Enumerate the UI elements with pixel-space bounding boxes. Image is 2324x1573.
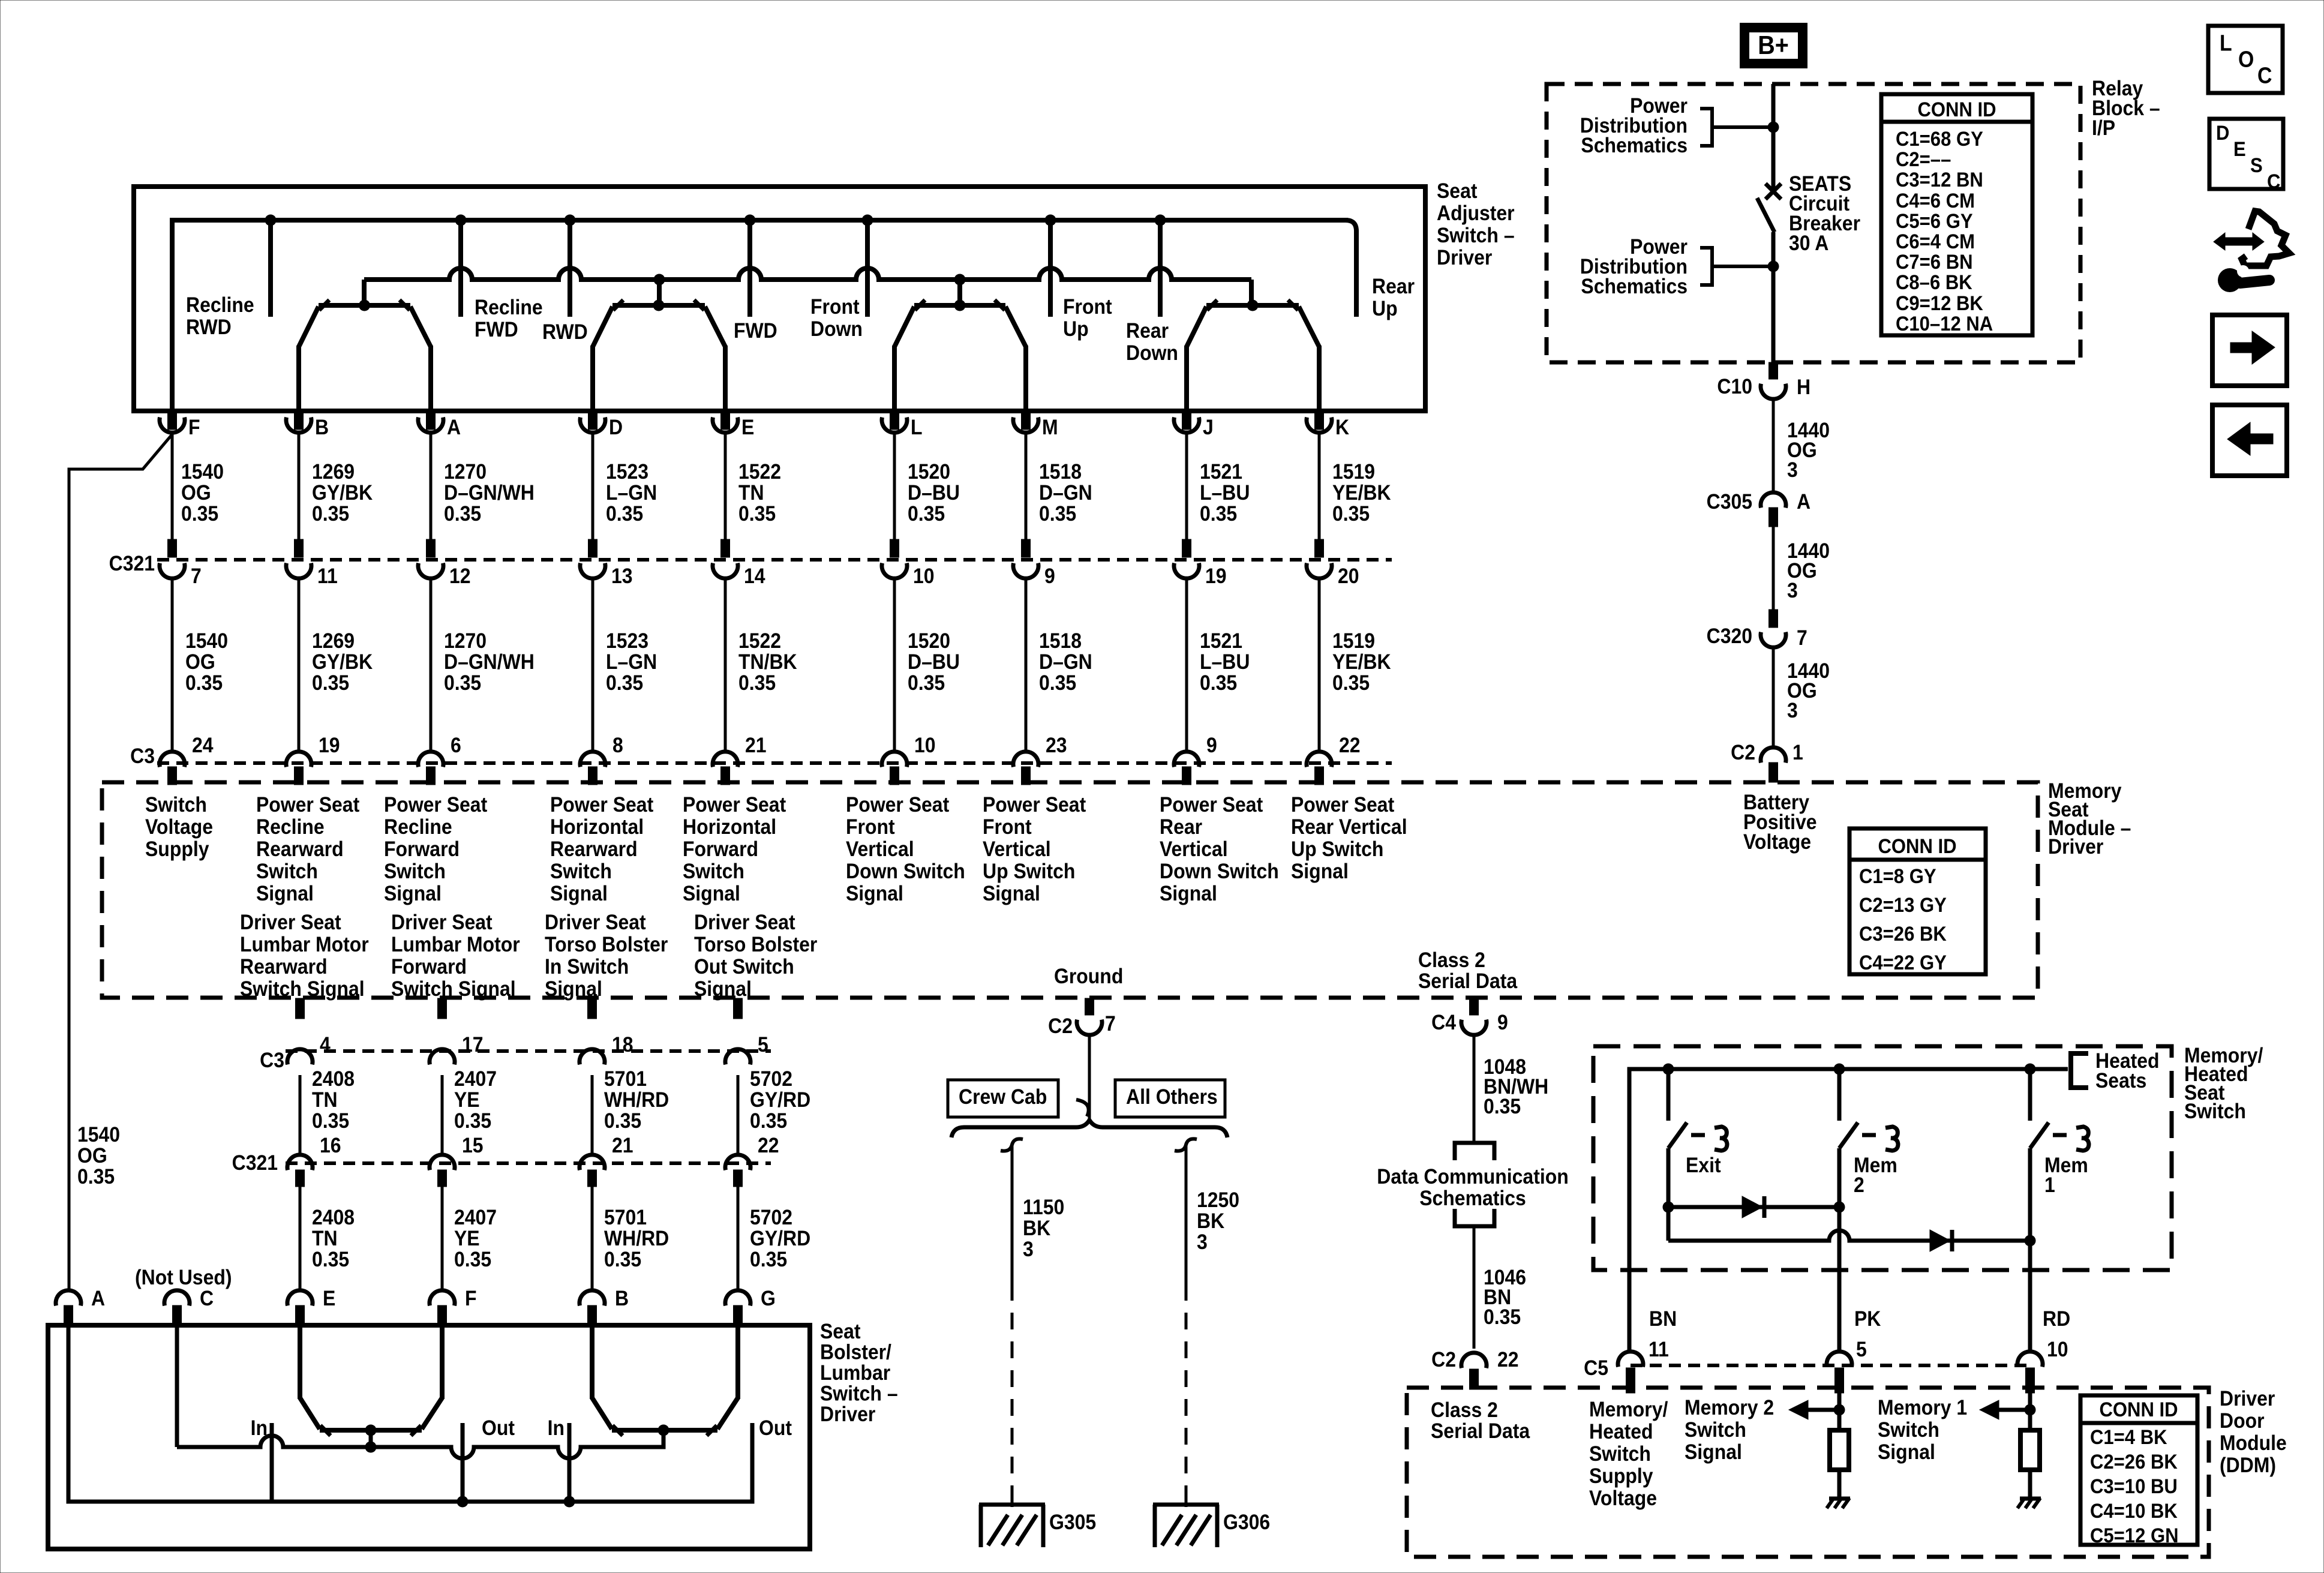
- svg-text:0.35: 0.35: [1200, 671, 1237, 695]
- svg-text:D–GN: D–GN: [1039, 481, 1092, 505]
- svg-text:1540: 1540: [181, 460, 224, 484]
- svg-text:D: D: [609, 415, 623, 439]
- connector C3 pin 24: [160, 752, 185, 767]
- connector C3 pin 6: [418, 752, 443, 767]
- svg-text:OG: OG: [181, 481, 211, 505]
- svg-text:7: 7: [191, 564, 202, 588]
- svg-text:5: 5: [1856, 1337, 1867, 1361]
- svg-text:C1=8 GY: C1=8 GY: [1859, 864, 1936, 888]
- svg-text:15: 15: [462, 1133, 484, 1157]
- connector C3 pin 4 (lower): [296, 998, 305, 1019]
- svg-text:Signal: Signal: [384, 881, 442, 905]
- svg-text:BK: BK: [1197, 1209, 1225, 1233]
- svg-text:Power Seat: Power Seat: [1291, 792, 1394, 816]
- svg-text:10: 10: [2047, 1337, 2068, 1361]
- connector C5 pin 5: [1827, 1352, 1852, 1367]
- svg-text:WH/RD: WH/RD: [604, 1226, 669, 1250]
- svg-text:2408: 2408: [312, 1067, 355, 1091]
- node diode2 right dot: [2025, 1235, 2036, 1247]
- connector pin J (seat adjuster switch): [1182, 413, 1191, 430]
- svg-text:Seat: Seat: [1437, 179, 1477, 203]
- svg-text:3: 3: [1023, 1237, 1034, 1261]
- ground G305: [979, 1503, 1045, 1507]
- svg-text:Front: Front: [983, 815, 1032, 839]
- svg-text:2: 2: [1854, 1173, 1864, 1197]
- svg-text:Forward: Forward: [384, 837, 460, 861]
- node bus dot Out1: [457, 1496, 469, 1508]
- svg-text:C2: C2: [1048, 1014, 1073, 1038]
- node bus dot x950: [565, 215, 576, 226]
- wire C2-7 down: [1088, 1035, 1091, 1118]
- svg-text:Memory 1: Memory 1: [1878, 1395, 1967, 1419]
- switch rear vertical (J-K): [1206, 303, 1299, 308]
- svg-text:Rearward: Rearward: [240, 954, 328, 978]
- icon prev-page arrow: [2250, 434, 2273, 444]
- svg-text:1521: 1521: [1200, 629, 1242, 653]
- svg-text:(Not Used): (Not Used): [135, 1265, 232, 1289]
- node bus dot x1934: [1155, 215, 1166, 226]
- wire stub x768: [458, 220, 463, 317]
- svg-text:0.35: 0.35: [444, 502, 481, 526]
- wire bus2 right corner: [1249, 280, 1254, 305]
- node bus dot x1446: [862, 215, 873, 226]
- connector pin D (seat adjuster switch): [588, 413, 597, 430]
- wire all others ground dashed: [1185, 1284, 1188, 1495]
- wire common line (from C): [177, 1430, 663, 1458]
- wire stub x950: [568, 220, 572, 317]
- wire sw3 tap: [957, 280, 962, 305]
- switch Exit: [1663, 1064, 1674, 1075]
- svg-text:0.35: 0.35: [312, 671, 349, 695]
- svg-text:In: In: [548, 1416, 565, 1440]
- svg-text:Switch: Switch: [1589, 1442, 1651, 1466]
- wire all others ground: [1185, 1146, 1188, 1284]
- wire sw2 tap: [657, 280, 662, 305]
- brace: [951, 1120, 1227, 1137]
- svg-text:D–GN/WH: D–GN/WH: [444, 650, 535, 674]
- connector line C5 (dashed): [1631, 1364, 2030, 1367]
- svg-text:30 A: 30 A: [1789, 231, 1828, 255]
- svg-text:9: 9: [1044, 564, 1055, 588]
- svg-text:C4=22 GY: C4=22 GY: [1859, 951, 1947, 974]
- svg-text:Switch: Switch: [384, 859, 446, 883]
- svg-text:Ground: Ground: [1054, 964, 1123, 988]
- svg-text:22: 22: [758, 1133, 779, 1157]
- svg-text:Out Switch: Out Switch: [694, 954, 794, 978]
- circuit breaker SEATS blade: [1757, 198, 1774, 232]
- wire Out1 vertical: [461, 1423, 465, 1502]
- diode D1: [1668, 1205, 1839, 1209]
- svg-text:C320: C320: [1707, 624, 1752, 648]
- svg-text:13: 13: [611, 564, 633, 588]
- wire second bus: [364, 268, 1251, 280]
- svg-text:1270: 1270: [444, 629, 487, 653]
- svg-text:Class 2: Class 2: [1418, 948, 1485, 972]
- svg-text:OG: OG: [185, 650, 215, 674]
- svg-text:Switch: Switch: [550, 859, 612, 883]
- wire C10-C305: [1772, 401, 1775, 491]
- svg-text:Power Seat: Power Seat: [550, 792, 653, 816]
- wire C4 down: [1473, 1037, 1476, 1143]
- svg-text:Driver Seat: Driver Seat: [694, 910, 795, 934]
- svg-text:1270: 1270: [444, 460, 487, 484]
- svg-text:Up: Up: [1063, 317, 1089, 341]
- svg-text:Driver: Driver: [2220, 1386, 2275, 1410]
- node diode1 left dot: [1663, 1202, 1674, 1213]
- power B+ box: [1744, 28, 1803, 64]
- connector C321 pin 21 (lower): [580, 1155, 605, 1170]
- svg-text:11: 11: [1649, 1337, 1669, 1361]
- wire pin C drop: [175, 1325, 179, 1447]
- svg-text:0.35: 0.35: [77, 1164, 115, 1188]
- svg-text:3: 3: [1787, 698, 1798, 722]
- svg-text:Signal: Signal: [545, 977, 602, 1001]
- wire B+ feed lower: [1771, 232, 1776, 362]
- svg-text:Rear: Rear: [1160, 815, 1202, 839]
- table CONN ID module: [1849, 828, 1986, 974]
- wire crew cab ground: [1011, 1146, 1014, 1284]
- svg-text:Module: Module: [2220, 1431, 2287, 1455]
- svg-text:C1=4 BK: C1=4 BK: [2090, 1425, 2167, 1449]
- connector line C3 (dashed): [157, 761, 1392, 765]
- svg-text:H: H: [1797, 375, 1810, 399]
- svg-text:D–BU: D–BU: [908, 481, 960, 505]
- connector C3 pin 18 (lower): [588, 998, 597, 1019]
- svg-text:B: B: [315, 415, 329, 439]
- svg-text:1269: 1269: [312, 460, 355, 484]
- svg-text:C4: C4: [1431, 1010, 1456, 1034]
- wire stub x1446: [865, 220, 870, 317]
- connector C4 pin 9: [1470, 998, 1479, 1015]
- svg-text:0.35: 0.35: [312, 502, 349, 526]
- svg-text:17: 17: [462, 1032, 484, 1056]
- svg-text:FWD: FWD: [734, 319, 777, 343]
- memory 2 signal leg with resistor and ground: [1837, 1393, 1842, 1430]
- svg-text:C321: C321: [232, 1151, 278, 1175]
- svg-text:0.35: 0.35: [750, 1109, 787, 1133]
- svg-text:YE/BK: YE/BK: [1332, 481, 1391, 505]
- svg-text:Torso Bolster: Torso Bolster: [694, 932, 817, 956]
- wire In1 vertical: [270, 1423, 274, 1502]
- svg-text:Recline: Recline: [475, 295, 543, 319]
- wire In2 vertical: [568, 1423, 572, 1502]
- svg-text:Schematics: Schematics: [1419, 1186, 1526, 1210]
- switch horizontal (D-E): [612, 303, 705, 308]
- svg-text:Torso Bolster: Torso Bolster: [545, 932, 668, 956]
- svg-text:L–GN: L–GN: [606, 650, 657, 674]
- svg-text:14: 14: [744, 564, 765, 588]
- svg-text:Up: Up: [1372, 296, 1398, 320]
- svg-text:0.35: 0.35: [1484, 1305, 1521, 1329]
- svg-text:C8–6 BK: C8–6 BK: [1896, 271, 1972, 294]
- wire bus2 left corner: [362, 280, 367, 305]
- svg-text:10: 10: [913, 564, 935, 588]
- svg-text:Seats: Seats: [2095, 1068, 2146, 1092]
- svg-text:Power Seat: Power Seat: [256, 792, 359, 816]
- connector C321 pin 9: [1022, 539, 1031, 557]
- svg-text:0.35: 0.35: [1039, 671, 1076, 695]
- svg-text:L: L: [911, 415, 923, 439]
- svg-text:C2=13 GY: C2=13 GY: [1859, 893, 1947, 917]
- switch lumbar (E-F): [320, 1428, 422, 1433]
- svg-text:CONN ID: CONN ID: [1878, 834, 1956, 858]
- svg-text:C3: C3: [130, 744, 155, 768]
- relay block box (dashed): [1547, 84, 2080, 362]
- svg-text:I/P: I/P: [2092, 116, 2115, 140]
- switch torso bolster (B-G): [612, 1428, 717, 1433]
- connector line C3 lower (dashed): [286, 1049, 771, 1053]
- svg-text:FWD: FWD: [475, 317, 518, 341]
- svg-text:L–BU: L–BU: [1200, 650, 1250, 674]
- svg-text:TN: TN: [738, 481, 764, 505]
- node diode1 right dot: [1834, 1202, 1845, 1213]
- svg-text:Memory/: Memory/: [1589, 1397, 1668, 1421]
- svg-text:1518: 1518: [1039, 629, 1082, 653]
- svg-text:L: L: [2220, 31, 2232, 56]
- svg-text:YE/BK: YE/BK: [1332, 650, 1391, 674]
- svg-text:Voltage: Voltage: [1589, 1486, 1657, 1510]
- svg-text:19: 19: [1205, 564, 1227, 588]
- svg-text:Driver Seat: Driver Seat: [545, 910, 646, 934]
- connector pin E (bolster switch): [287, 1290, 313, 1306]
- symbol data comm ref: [1455, 1143, 1494, 1160]
- svg-text:D–GN/WH: D–GN/WH: [444, 481, 535, 505]
- svg-text:Signal: Signal: [1291, 859, 1349, 883]
- connector pin F (bolster switch): [430, 1290, 455, 1306]
- wire exit vertical: [1667, 1148, 1671, 1207]
- connector C3 pin 21: [713, 752, 738, 767]
- svg-text:C3: C3: [260, 1048, 284, 1072]
- svg-text:Door: Door: [2220, 1409, 2265, 1433]
- node bus2 dot sw3: [954, 274, 966, 286]
- svg-text:TN: TN: [312, 1226, 338, 1250]
- connector C5 pin 11: [1618, 1352, 1643, 1367]
- svg-text:TN/BK: TN/BK: [738, 650, 797, 674]
- svg-text:Forward: Forward: [391, 954, 467, 978]
- node bus dot x1751: [1045, 215, 1056, 226]
- svg-text:A: A: [91, 1286, 105, 1310]
- icon DESC box: [2209, 119, 2283, 189]
- svg-text:2407: 2407: [454, 1205, 497, 1229]
- svg-text:12: 12: [449, 564, 471, 588]
- svg-text:E: E: [741, 415, 754, 439]
- svg-text:Switch Signal: Switch Signal: [391, 977, 516, 1001]
- wire heated bus: [1629, 1069, 2068, 1353]
- svg-text:Switch Signal: Switch Signal: [240, 977, 365, 1001]
- svg-text:Voltage: Voltage: [1743, 830, 1811, 854]
- svg-text:0.35: 0.35: [312, 1109, 349, 1133]
- svg-text:Heated: Heated: [1589, 1419, 1653, 1443]
- bracket heated seats: [2071, 1053, 2088, 1088]
- connector C10 pin H: [1769, 362, 1778, 379]
- svg-text:0.35: 0.35: [908, 502, 945, 526]
- svg-text:24: 24: [192, 733, 214, 757]
- connector C3 pin 19: [286, 752, 311, 767]
- svg-text:Switch: Switch: [2184, 1099, 2246, 1123]
- svg-text:OG: OG: [77, 1143, 107, 1167]
- svg-text:Supply: Supply: [145, 837, 209, 861]
- svg-text:Down Switch: Down Switch: [1160, 859, 1279, 883]
- icon next-page arrow: [2230, 343, 2253, 353]
- connector pin M (seat adjuster switch): [1022, 413, 1031, 430]
- table CONN ID ddm: [2080, 1395, 2197, 1545]
- svg-text:Rearward: Rearward: [550, 837, 638, 861]
- wire stub x1934: [1158, 220, 1163, 317]
- svg-text:0.35: 0.35: [454, 1109, 491, 1133]
- svg-text:Vertical: Vertical: [1160, 837, 1228, 861]
- svg-text:GY/RD: GY/RD: [750, 1226, 810, 1250]
- connector pin G (bolster switch): [725, 1290, 750, 1306]
- svg-text:1522: 1522: [738, 629, 781, 653]
- module box memory seat (dashed): [102, 782, 2038, 998]
- wire stub x451: [268, 220, 273, 317]
- connector C3 pin 9: [1174, 752, 1199, 767]
- svg-text:0.35: 0.35: [750, 1247, 787, 1271]
- svg-text:1540: 1540: [77, 1122, 120, 1146]
- svg-text:Recline: Recline: [384, 815, 452, 839]
- svg-text:O: O: [2238, 47, 2254, 72]
- svg-text:Vertical: Vertical: [846, 837, 914, 861]
- seat bolster box: [48, 1325, 810, 1549]
- connector C321 pin 19: [1182, 539, 1191, 557]
- svg-text:C: C: [2257, 63, 2272, 88]
- svg-text:5701: 5701: [604, 1067, 647, 1091]
- wire rear-up corner: [1346, 220, 1356, 317]
- svg-text:GY/BK: GY/BK: [312, 650, 373, 674]
- svg-text:YE: YE: [454, 1226, 480, 1250]
- svg-text:0.35: 0.35: [604, 1109, 641, 1133]
- svg-text:L–BU: L–BU: [1200, 481, 1250, 505]
- connector C5 pin 10: [2017, 1352, 2043, 1367]
- memory heated seat switch box (dashed): [1593, 1046, 2172, 1270]
- table CONN ID relay: [1881, 94, 2032, 335]
- svg-text:0.35: 0.35: [444, 671, 481, 695]
- svg-text:7: 7: [1797, 626, 1807, 650]
- svg-text:1523: 1523: [606, 460, 648, 484]
- svg-text:C10–12 NA: C10–12 NA: [1896, 312, 1993, 335]
- connector C3 pin 17 (lower): [438, 998, 447, 1019]
- connector pin K (seat adjuster switch): [1315, 413, 1324, 430]
- svg-text:BK: BK: [1023, 1216, 1051, 1240]
- svg-text:Schematics: Schematics: [1581, 133, 1688, 157]
- svg-text:In: In: [251, 1416, 268, 1440]
- ground G306: [1153, 1503, 1219, 1507]
- svg-text:Power Seat: Power Seat: [846, 792, 949, 816]
- svg-text:18: 18: [612, 1032, 633, 1056]
- svg-text:Signal: Signal: [694, 977, 752, 1001]
- wire top bus: [172, 220, 1348, 411]
- svg-text:Recline: Recline: [186, 293, 254, 317]
- svg-text:Power Seat: Power Seat: [683, 792, 786, 816]
- node dot lower: [1768, 261, 1779, 272]
- svg-text:C2: C2: [1431, 1347, 1456, 1371]
- option curl right: [1175, 1139, 1197, 1151]
- svg-text:A: A: [447, 415, 461, 439]
- node bar dot E-F: [365, 1425, 377, 1436]
- svg-text:All Others: All Others: [1126, 1085, 1218, 1109]
- svg-text:3: 3: [1197, 1230, 1208, 1254]
- connector C3 pin 10: [882, 752, 907, 767]
- svg-text:Driver Seat: Driver Seat: [391, 910, 493, 934]
- svg-text:Lumbar Motor: Lumbar Motor: [391, 932, 520, 956]
- node bar dot B-G: [658, 1425, 669, 1436]
- svg-text:TN: TN: [312, 1088, 338, 1112]
- svg-text:RWD: RWD: [542, 320, 588, 344]
- svg-text:3: 3: [1787, 578, 1798, 602]
- svg-text:F: F: [188, 415, 200, 439]
- svg-text:C305: C305: [1707, 490, 1752, 514]
- svg-text:0.35: 0.35: [1332, 502, 1370, 526]
- svg-text:Signal: Signal: [983, 881, 1040, 905]
- svg-text:Switch: Switch: [256, 859, 318, 883]
- svg-text:E: E: [2233, 137, 2246, 161]
- svg-text:E: E: [323, 1286, 335, 1310]
- svg-text:16: 16: [320, 1133, 341, 1157]
- wire B+ feed upper: [1771, 84, 1776, 191]
- connector pin A (seat adjuster switch): [427, 413, 436, 430]
- svg-text:8: 8: [612, 733, 623, 757]
- svg-text:Rear Vertical: Rear Vertical: [1291, 815, 1407, 839]
- svg-text:Power Seat: Power Seat: [983, 792, 1086, 816]
- box Crew Cab: [948, 1080, 1058, 1117]
- svg-text:M: M: [1042, 415, 1058, 439]
- svg-text:G: G: [761, 1286, 776, 1310]
- svg-text:22: 22: [1497, 1347, 1519, 1371]
- svg-text:0.35: 0.35: [1200, 502, 1237, 526]
- svg-text:C: C: [200, 1286, 214, 1310]
- svg-text:Signal: Signal: [550, 881, 608, 905]
- svg-text:1522: 1522: [738, 460, 781, 484]
- svg-text:BN: BN: [1649, 1307, 1677, 1331]
- svg-text:C3=10 BU: C3=10 BU: [2090, 1475, 2178, 1498]
- svg-text:Forward: Forward: [683, 837, 758, 861]
- connector C321 pin 15 (lower): [430, 1155, 455, 1170]
- svg-text:Adjuster: Adjuster: [1437, 201, 1515, 225]
- svg-text:C4=10 BK: C4=10 BK: [2090, 1499, 2178, 1523]
- svg-text:19: 19: [319, 733, 340, 757]
- svg-text:F: F: [465, 1286, 477, 1310]
- connector C321 pin 11: [295, 539, 304, 557]
- connector C321 pin 7: [168, 539, 177, 557]
- connector pin E (seat adjuster switch): [721, 413, 730, 430]
- svg-text:Front: Front: [1063, 295, 1112, 319]
- svg-text:A: A: [1797, 490, 1810, 514]
- svg-text:Driver Seat: Driver Seat: [240, 910, 341, 934]
- svg-text:S: S: [2250, 154, 2263, 177]
- svg-text:G305: G305: [1049, 1510, 1096, 1534]
- connector C2 pin 7: [1085, 998, 1094, 1015]
- svg-text:Switch: Switch: [683, 859, 744, 883]
- svg-text:K: K: [1335, 415, 1350, 439]
- connector C321 pin 12: [427, 539, 436, 557]
- svg-text:YE: YE: [454, 1088, 480, 1112]
- svg-text:Power Seat: Power Seat: [384, 792, 487, 816]
- connector pin C (bolster switch): [164, 1290, 190, 1306]
- svg-text:Down: Down: [810, 317, 863, 341]
- svg-text:GY/RD: GY/RD: [750, 1088, 810, 1112]
- svg-text:5702: 5702: [750, 1067, 792, 1091]
- svg-text:0.35: 0.35: [606, 502, 643, 526]
- svg-text:0.35: 0.35: [604, 1247, 641, 1271]
- svg-text:D–GN: D–GN: [1039, 650, 1092, 674]
- svg-text:1269: 1269: [312, 629, 355, 653]
- node cline dot E-F: [365, 1442, 377, 1453]
- connector pin F (seat adjuster switch): [168, 413, 177, 430]
- svg-text:L–GN: L–GN: [606, 481, 657, 505]
- svg-text:Lumbar Motor: Lumbar Motor: [240, 932, 369, 956]
- svg-text:21: 21: [612, 1133, 633, 1157]
- splice curl: [1076, 1100, 1089, 1116]
